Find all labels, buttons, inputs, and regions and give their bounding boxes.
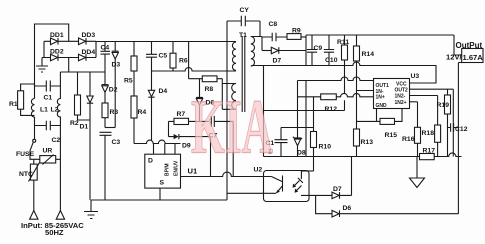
svg-text:D2: D2 <box>109 87 118 94</box>
svg-text:R7: R7 <box>177 111 186 118</box>
svg-text:R13: R13 <box>361 139 374 146</box>
resistor R7 <box>169 111 209 125</box>
svg-text:1N+: 1N+ <box>376 94 385 100</box>
wire C7 node to opto row <box>232 121 234 176</box>
transformer T1 secondary winding <box>239 32 255 66</box>
capacitor C3 <box>100 132 121 200</box>
resistor R11 <box>337 35 349 66</box>
svg-text:1.67A: 1.67A <box>463 53 484 62</box>
input terminal arrow 2 <box>56 211 64 220</box>
ground (bridge) <box>36 58 48 73</box>
svg-text:L2: L2 <box>51 107 59 114</box>
wire opto input row y176 with hop <box>181 172 272 176</box>
wire 1N2- row <box>410 95 438 97</box>
svg-text:OutPut: OutPut <box>456 41 483 50</box>
svg-text:CY: CY <box>240 7 250 14</box>
resistor R2 <box>70 72 90 127</box>
capacitor C8 <box>262 21 287 41</box>
svg-text:D7: D7 <box>273 58 282 65</box>
svg-text:C4: C4 <box>101 45 110 52</box>
diode DD2 <box>50 49 64 61</box>
wire primary ground rail <box>91 199 227 201</box>
svg-text:C10: C10 <box>325 57 338 64</box>
diode D7 <box>262 47 306 64</box>
diode D7 (lower) <box>332 157 352 199</box>
svg-text:R5: R5 <box>124 78 133 85</box>
transformer T1 core <box>242 36 245 112</box>
capacitor C12 <box>448 123 468 133</box>
wire secondary return row with hop <box>251 62 436 83</box>
svg-text:R12: R12 <box>325 106 338 113</box>
svg-text:R10: R10 <box>319 144 332 151</box>
svg-text:D9: D9 <box>182 143 191 150</box>
capacitor C1 <box>35 81 61 102</box>
resistor R16 <box>402 102 421 157</box>
svg-text:1N2-: 1N2- <box>395 94 406 100</box>
wire feedback bus y110.5 <box>264 110 345 112</box>
optocoupler U2 <box>254 167 310 202</box>
capacitor C2 <box>35 121 61 144</box>
svg-text:R16: R16 <box>402 136 415 143</box>
diode DD4 <box>79 49 96 61</box>
transformer T1 primary winding <box>232 42 236 70</box>
diode DD1 <box>50 32 64 45</box>
svg-text:GND: GND <box>376 103 388 109</box>
capacitor C5 <box>146 42 167 91</box>
svg-text:D8: D8 <box>297 150 306 157</box>
svg-text:C3: C3 <box>112 139 121 146</box>
svg-text:12V/: 12V/ <box>446 53 463 62</box>
svg-text:R3: R3 <box>110 109 119 116</box>
svg-text:D6: D6 <box>343 205 352 212</box>
wire bias winding leads <box>222 79 236 110</box>
wire 1N- row <box>357 90 374 92</box>
svg-text:C1: C1 <box>44 95 53 102</box>
resistor R4 <box>131 96 146 144</box>
opto U2 phototransistor <box>271 176 282 194</box>
diode D9 <box>169 121 211 176</box>
fuse FUSE <box>16 139 36 159</box>
svg-text:DD1: DD1 <box>50 32 64 39</box>
svg-text:EN/UV: EN/UV <box>174 160 180 176</box>
svg-text:C8: C8 <box>269 21 278 28</box>
wire feedback row y80 with hops <box>298 77 374 80</box>
resistor R18 <box>422 96 441 157</box>
diode D4 <box>148 88 167 140</box>
wire secondary top lead <box>251 37 262 51</box>
wire rectified node x306 <box>305 35 307 66</box>
capacitor CY <box>227 7 260 37</box>
wire U1 top row with hops <box>134 140 181 143</box>
svg-text:R2: R2 <box>70 120 79 127</box>
wire C11 top row <box>281 127 314 129</box>
resistor R9 <box>287 28 306 40</box>
svg-text:BP/M: BP/M <box>165 164 171 177</box>
svg-text:UR: UR <box>43 148 53 155</box>
wire U1 pin stubs <box>154 144 176 155</box>
wire C11 column <box>263 66 265 157</box>
inductor L1 <box>31 99 48 118</box>
wire D8 column <box>297 81 299 138</box>
resistor R15 <box>357 109 403 140</box>
wire clamp row y71 with hop <box>152 68 237 72</box>
svg-text:S: S <box>160 180 165 187</box>
wire bridge left vertical <box>43 41 45 57</box>
resistor R6 <box>170 42 188 72</box>
output connector box <box>446 41 483 62</box>
wire D6 branch <box>316 195 332 213</box>
wire opto output row to D7 <box>309 194 332 196</box>
resistor R14 <box>354 35 375 129</box>
svg-text:R15: R15 <box>385 132 398 139</box>
diode DD3 <box>79 32 96 45</box>
capacitor C7 <box>209 116 234 140</box>
wire rail to output box <box>454 35 462 55</box>
svg-text:R4: R4 <box>138 109 147 116</box>
svg-text:C9: C9 <box>314 45 323 52</box>
input terminal arrow 1 <box>30 211 38 220</box>
wire opto top right link <box>301 170 313 172</box>
capacitor C4 <box>101 42 111 85</box>
svg-text:U3: U3 <box>411 73 420 80</box>
diode D6 (lower) <box>332 205 458 217</box>
svg-text:R18: R18 <box>422 130 435 137</box>
wire 1N2+ row <box>410 101 418 103</box>
svg-text:DD2: DD2 <box>50 49 64 56</box>
zener D2 <box>102 85 118 103</box>
wire bridge top row <box>44 40 96 42</box>
capacitor C9 <box>307 35 323 66</box>
resistor R5 <box>124 42 137 97</box>
wire node row y72 <box>60 71 105 73</box>
wire output right vertical <box>457 63 459 214</box>
resistor R3 <box>102 103 118 128</box>
wire R3 bottom row <box>105 127 115 129</box>
capacitor C10 <box>324 35 338 66</box>
opto U2 led <box>293 171 309 196</box>
svg-text:R1: R1 <box>9 101 18 108</box>
wire left column <box>34 84 36 139</box>
svg-text:R14: R14 <box>362 51 375 58</box>
resistor R1 <box>9 84 35 115</box>
svg-text:R9: R9 <box>292 28 301 35</box>
svg-text:DD4: DD4 <box>82 49 96 56</box>
svg-text:D1: D1 <box>80 124 89 131</box>
svg-text:C12: C12 <box>455 126 468 133</box>
svg-text:D4: D4 <box>159 88 168 95</box>
wire opto input row y194 <box>227 192 276 194</box>
transformer T1 bias winding <box>232 84 236 110</box>
wire OUT2 row <box>410 88 454 90</box>
wire output rail <box>306 34 454 36</box>
zener D6 <box>196 79 214 122</box>
inductor L2 <box>51 72 61 211</box>
svg-text:C2: C2 <box>52 137 61 144</box>
svg-text:D3: D3 <box>112 62 121 69</box>
diode D1 <box>80 72 94 200</box>
zener D8 <box>293 137 306 157</box>
resistor R17 <box>420 148 436 160</box>
wire U2 collector column x306 <box>305 81 307 157</box>
svg-text:1N2+: 1N2+ <box>395 100 407 106</box>
resistor R10 <box>311 97 332 171</box>
svg-text:KIA: KIA <box>191 84 273 170</box>
wire AC leg B <box>68 58 70 73</box>
capacitor C11 <box>266 128 288 157</box>
wire HV rail <box>96 41 236 43</box>
wire top loop AC leg A <box>35 24 69 86</box>
resistor R19 <box>437 89 451 156</box>
thermistor NTC <box>19 159 40 210</box>
resistor R12 <box>298 93 374 113</box>
wire long vertical x227 <box>226 21 228 200</box>
varistor UR <box>34 148 61 165</box>
resistor R8 <box>189 76 223 93</box>
wire bridge bottom row <box>42 57 96 59</box>
svg-text:D7: D7 <box>333 186 342 193</box>
svg-text:R17: R17 <box>423 148 436 155</box>
wire U3 GND stub <box>376 109 378 122</box>
resistor R13 <box>354 129 374 157</box>
zener D3 <box>112 42 121 128</box>
svg-text:DD3: DD3 <box>82 32 96 39</box>
svg-text:D: D <box>148 158 153 165</box>
ground (primary main) <box>84 200 98 219</box>
wire R11 column lower <box>344 66 346 111</box>
IC U3 <box>374 73 420 109</box>
IC U1 <box>145 154 198 188</box>
svg-text:L1: L1 <box>40 107 48 114</box>
wire secondary ground rail with hop <box>264 153 462 157</box>
svg-text:R11: R11 <box>337 39 349 46</box>
svg-text:FUSE: FUSE <box>16 151 35 158</box>
wire OUT2 down column <box>452 89 454 156</box>
svg-text:R6: R6 <box>179 58 188 65</box>
svg-text:T1: T1 <box>239 32 247 39</box>
svg-text:R19: R19 <box>437 102 450 109</box>
label input <box>21 221 84 237</box>
wire clamp feed vertical x188.6 <box>188 42 190 79</box>
svg-text:C5: C5 <box>159 53 168 60</box>
svg-text:50HZ: 50HZ <box>45 228 64 237</box>
wire bridge right vertical to rail <box>95 41 97 57</box>
wire U1 source to ground rail <box>159 188 161 200</box>
svg-text:NTC: NTC <box>19 171 33 178</box>
ground triangle (signal) <box>410 157 425 188</box>
